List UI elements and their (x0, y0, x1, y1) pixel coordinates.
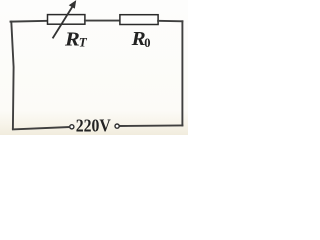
paper background (0, 0, 188, 135)
wire: bottom-right segment to right terminal (119, 124, 182, 127)
wire: bottom-left segment to left corner (13, 127, 70, 129)
resistor R_T (box) (48, 15, 85, 25)
svg-text:R: R (64, 28, 80, 50)
wire: R_0 to top-right corner (158, 20, 182, 23)
wire: between R_T and R_0 (85, 20, 120, 22)
wire: top-left segment to R_T (11, 20, 48, 23)
resistor R_0 (box) (120, 15, 158, 25)
arrow through R_T (variable resistor) (53, 1, 76, 39)
wire: right vertical side (181, 21, 183, 125)
svg-text:0: 0 (144, 36, 150, 50)
svg-text:T: T (79, 35, 88, 50)
svg-text:220V: 220V (76, 116, 111, 136)
wire: left vertical side (11, 22, 13, 129)
terminal circle (left) (70, 125, 74, 129)
terminal circle (right) (115, 124, 119, 128)
